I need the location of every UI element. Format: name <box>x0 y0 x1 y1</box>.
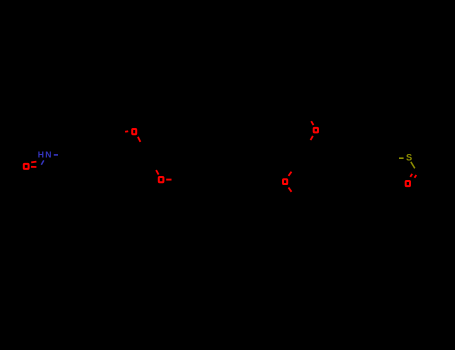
bond N1-C(aryl) blue half <box>54 154 58 156</box>
ether oxygen O4 (ring 2 left) <box>283 179 287 184</box>
svg-text:S: S <box>406 152 412 162</box>
bond O5-CH3 red half <box>311 121 313 125</box>
double bond C2=O6 left red half <box>410 174 412 177</box>
thioester oxygen O6 <box>406 181 410 186</box>
double bond C2=O6 right red half <box>415 175 417 178</box>
ether oxygen O3 (ring 1 bottom) <box>159 177 164 182</box>
bond O3-C(aryl) red half <box>156 170 159 175</box>
methoxy oxygen O5 (ring 2 top) <box>314 128 318 132</box>
bond S1-C2 yellow half <box>411 162 415 169</box>
bond N1-C1 blue half <box>41 160 44 164</box>
svg-text:HN: HN <box>38 150 53 160</box>
bond O2-CH3 red half <box>125 130 128 133</box>
bond O4-CH2 red half <box>289 188 292 192</box>
bond S1-CH2 yellow half <box>399 157 404 159</box>
bond O5-C(aryl) red half <box>311 136 313 140</box>
bond O2-C(aryl) red half <box>138 137 141 142</box>
methoxy oxygen O2 (ring 1 top) <box>132 129 136 134</box>
bond O4-C(aryl) red half <box>289 172 292 176</box>
carbonyl oxygen O1 (acetamide C=O) <box>24 164 29 169</box>
double bond C1=O1 upper red half <box>31 161 36 164</box>
double bond C1=O1 lower red half <box>31 166 36 168</box>
bond O3-CH2 red half <box>166 179 171 181</box>
